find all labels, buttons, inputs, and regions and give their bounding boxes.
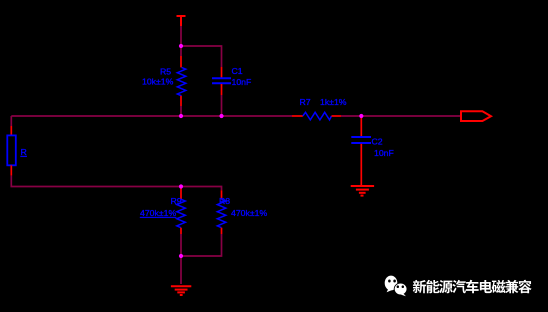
wire node A to R5: [180, 46, 182, 56]
svg-text:R8: R8: [219, 196, 230, 206]
resistor R (box): [7, 126, 26, 176]
svg-text:C2: C2: [372, 137, 383, 147]
node A junction dot: [179, 44, 183, 48]
node C junction dot: [219, 114, 223, 118]
caption text 新能源汽车电磁兼容 (vector): [413, 280, 532, 294]
svg-text:C1: C1: [232, 66, 243, 76]
wire R8 bottom to node E: [181, 234, 222, 256]
node B junction dot: [179, 114, 183, 118]
resistor R8: [217, 190, 267, 234]
svg-text:R5: R5: [160, 67, 171, 77]
wire bottom bus to R8 branch: [181, 187, 222, 191]
wire box R to bottom bus: [11, 176, 181, 187]
power VCC bar: [177, 16, 186, 26]
capacitor C2: [351, 116, 394, 186]
svg-text:R7: R7: [300, 97, 311, 107]
port (output connector): [461, 111, 491, 121]
wire R5 to bus: [180, 106, 182, 116]
wire main bus right segment: [341, 115, 461, 117]
wire main bus left segment: [11, 115, 292, 117]
ground (C2): [351, 186, 374, 196]
node F junction dot: [359, 114, 363, 118]
resistor R5: [142, 56, 186, 106]
wire power to node A: [180, 26, 182, 46]
wire node E to ground: [180, 256, 182, 284]
svg-text:10nF: 10nF: [374, 148, 394, 158]
node E junction dot: [179, 254, 183, 258]
svg-text:10k±1%: 10k±1%: [142, 77, 174, 87]
svg-text:10nF: 10nF: [232, 77, 252, 87]
svg-text:1k±1%: 1k±1%: [320, 97, 347, 107]
wire node A to C1 top: [181, 46, 222, 67]
wire R9 bottom to node E: [180, 234, 182, 256]
wire left leg down to box resistor R: [10, 116, 12, 126]
svg-text:470k±1%: 470k±1%: [140, 208, 176, 218]
node D junction dot: [179, 184, 183, 188]
WeChat logo: [385, 276, 407, 297]
svg-text:470k±1%: 470k±1%: [231, 208, 267, 218]
WeChat logo eyes: [388, 280, 404, 289]
capacitor C1: [212, 66, 251, 95]
resistor R9: [140, 187, 185, 235]
svg-text:R9: R9: [171, 196, 182, 206]
wire C1 to bus: [221, 95, 223, 116]
resistor R7: [292, 97, 347, 120]
ground (bottom): [171, 286, 191, 295]
svg-text:R: R: [21, 147, 27, 157]
